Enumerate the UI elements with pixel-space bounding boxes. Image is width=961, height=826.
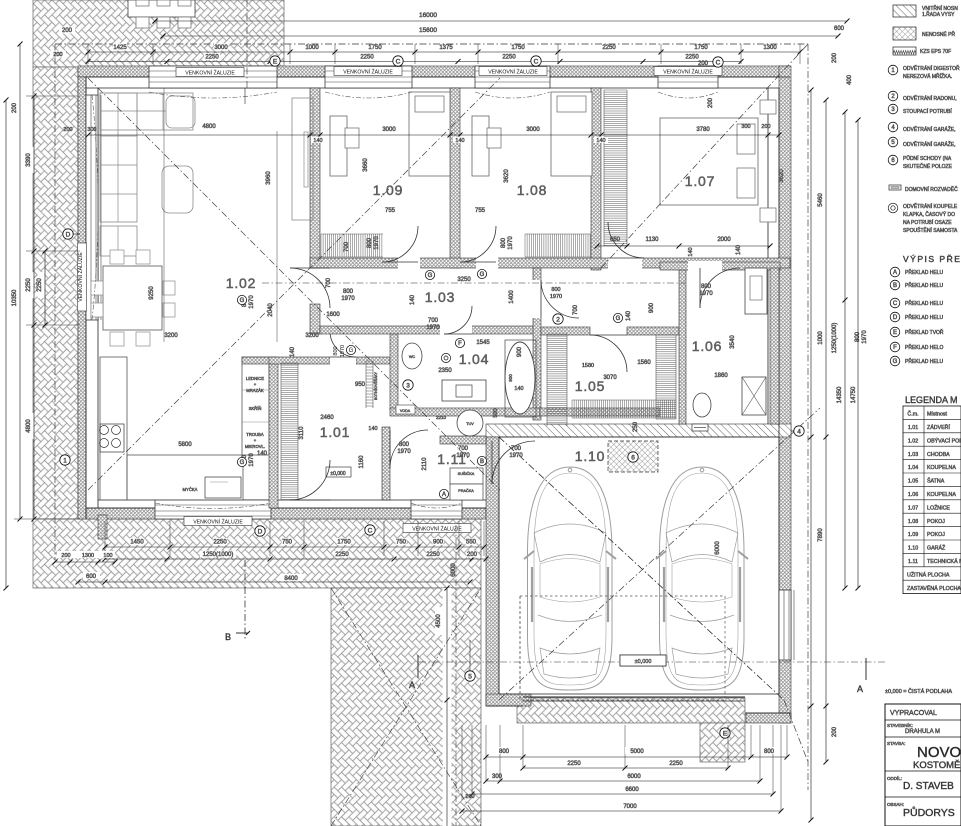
svg-text:4800: 4800 (26, 419, 32, 433)
svg-text:1970: 1970 (374, 236, 380, 250)
svg-text:1.07: 1.07 (685, 173, 715, 189)
svg-text:PŘEKLAD HELU: PŘEKLAD HELU (905, 299, 943, 307)
svg-text:PŘEKLAD HELO: PŘEKLAD HELO (905, 343, 943, 351)
svg-text:900: 900 (517, 346, 523, 357)
svg-text:KOSTOMĚ: KOSTOMĚ (913, 760, 960, 771)
svg-text:2250: 2250 (426, 552, 440, 558)
svg-text:2250: 2250 (335, 552, 349, 558)
svg-text:1.08: 1.08 (517, 182, 547, 198)
svg-text:5460: 5460 (818, 193, 824, 207)
svg-text:9250: 9250 (149, 286, 155, 300)
svg-text:1970: 1970 (341, 296, 355, 302)
svg-text:2040: 2040 (268, 303, 274, 317)
svg-text:8400: 8400 (284, 576, 298, 582)
svg-text:800: 800 (764, 749, 775, 755)
svg-text:1.06: 1.06 (908, 492, 918, 498)
svg-text:900: 900 (649, 302, 655, 313)
svg-text:LOŽNICE: LOŽNICE (927, 503, 950, 511)
svg-text:C: C (368, 527, 373, 534)
svg-text:750: 750 (282, 540, 293, 546)
svg-text:POKOJ: POKOJ (927, 519, 945, 525)
svg-text:ŠATNA: ŠATNA (927, 478, 945, 485)
svg-text:750: 750 (396, 540, 407, 546)
svg-text:200: 200 (465, 794, 474, 800)
svg-text:2110: 2110 (422, 457, 428, 471)
svg-text:1.04: 1.04 (459, 351, 489, 367)
svg-text:ODVĚTRÁNÍ GARÁŽE,: ODVĚTRÁNÍ GARÁŽE, (903, 140, 956, 148)
svg-text:1.09: 1.09 (373, 182, 403, 198)
svg-text:2250: 2250 (567, 761, 581, 767)
svg-text:140: 140 (410, 294, 416, 305)
svg-text:SPOUŠTĚNÍ SAMOSTA: SPOUŠTĚNÍ SAMOSTA (903, 226, 958, 234)
svg-text:200: 200 (467, 552, 478, 558)
svg-text:600: 600 (834, 26, 845, 32)
svg-text:GARÁŽ: GARÁŽ (927, 544, 946, 552)
svg-text:±0,000: ±0,000 (635, 659, 652, 665)
svg-text:1.01: 1.01 (320, 424, 350, 440)
svg-text:300: 300 (741, 124, 750, 130)
svg-text:G: G (616, 316, 621, 322)
svg-text:800: 800 (501, 237, 507, 248)
svg-text:1970: 1970 (550, 294, 562, 300)
svg-text:300: 300 (492, 774, 503, 780)
svg-text:D: D (258, 528, 263, 535)
svg-text:PŘEKLAD HELU: PŘEKLAD HELU (905, 281, 943, 289)
svg-text:800: 800 (333, 346, 339, 355)
svg-text:600: 600 (86, 574, 97, 580)
svg-text:A: A (857, 684, 863, 694)
svg-text:1860: 1860 (714, 373, 728, 379)
svg-text:4: 4 (797, 428, 801, 435)
svg-text:BOTNÍK/VĚŠÁKY: BOTNÍK/VĚŠÁKY (373, 371, 378, 400)
svg-text:200: 200 (832, 52, 838, 63)
svg-text:3: 3 (406, 382, 410, 389)
svg-text:16000: 16000 (419, 12, 437, 19)
svg-text:6: 6 (631, 454, 635, 461)
svg-text:1.10: 1.10 (908, 546, 918, 552)
svg-text:2000: 2000 (717, 237, 731, 243)
svg-text:C: C (534, 58, 539, 65)
svg-text:100: 100 (103, 553, 112, 559)
svg-text:6000: 6000 (451, 563, 457, 577)
svg-text:2250: 2250 (26, 278, 32, 292)
svg-text:KOUPELNA: KOUPELNA (927, 492, 956, 498)
svg-text:200: 200 (53, 52, 62, 58)
svg-text:VENKOVNÍ ŽALUZIE: VENKOVNÍ ŽALUZIE (343, 68, 393, 76)
svg-text:5: 5 (468, 673, 472, 680)
svg-text:G: G (240, 460, 245, 466)
svg-text:ZÁDVEŘÍ: ZÁDVEŘÍ (927, 423, 950, 431)
svg-text:E: E (273, 58, 278, 65)
svg-text:200: 200 (698, 61, 709, 67)
svg-text:2250: 2250 (602, 45, 616, 51)
svg-text:1.02: 1.02 (908, 438, 918, 444)
svg-text:1750: 1750 (511, 45, 525, 51)
svg-text:140: 140 (596, 138, 605, 144)
svg-text:1580: 1580 (582, 363, 594, 369)
svg-text:STAVBA:: STAVBA: (887, 741, 905, 746)
svg-text:400: 400 (847, 74, 853, 85)
svg-text:PŘEKLAD HELU: PŘEKLAD HELU (905, 357, 943, 365)
svg-text:3000: 3000 (526, 127, 540, 133)
svg-text:3780: 3780 (696, 127, 710, 133)
svg-text:140: 140 (688, 247, 694, 256)
svg-text:PŮDORYS: PŮDORYS (903, 806, 955, 819)
svg-text:TECHNICKÁ M: TECHNICKÁ M (927, 558, 961, 565)
svg-text:A: A (409, 680, 415, 690)
svg-text:6600: 6600 (625, 787, 639, 793)
svg-text:3390: 3390 (26, 153, 32, 167)
svg-text:PŮDNÍ SCHODY (NA: PŮDNÍ SCHODY (NA (903, 155, 952, 162)
svg-text:1160: 1160 (359, 455, 365, 469)
svg-text:3200: 3200 (164, 333, 178, 339)
svg-text:1750: 1750 (337, 540, 351, 546)
svg-text:G: G (428, 273, 433, 279)
svg-text:LEGENDA M: LEGENDA M (905, 395, 958, 405)
svg-text:DOMOVNÍ ROZVADĚČ: DOMOVNÍ ROZVADĚČ (905, 185, 958, 193)
svg-text:800: 800 (343, 289, 354, 295)
svg-text:14750: 14750 (851, 386, 857, 403)
svg-text:1300: 1300 (763, 45, 777, 51)
svg-text:PŘEKLAD HELU: PŘEKLAD HELU (905, 313, 943, 321)
svg-text:C: C (716, 59, 721, 66)
svg-text:4800: 4800 (202, 124, 216, 130)
svg-text:VENKOVNÍ ŽALUZIE: VENKOVNÍ ŽALUZIE (412, 525, 462, 533)
svg-text:1.06: 1.06 (692, 338, 722, 354)
svg-text:Č.m.: Č.m. (907, 411, 918, 418)
svg-text:1375: 1375 (439, 45, 453, 51)
svg-text:1.02: 1.02 (226, 275, 256, 291)
svg-text:140: 140 (290, 346, 296, 357)
svg-text:VENKOVNÍ ŽALUZIE: VENKOVNÍ ŽALUZIE (488, 68, 538, 76)
svg-text:6000: 6000 (627, 774, 641, 780)
svg-text:2250: 2250 (685, 55, 699, 61)
svg-text:5000: 5000 (630, 749, 644, 755)
svg-text:D: D (66, 231, 71, 238)
svg-text:2250: 2250 (213, 540, 227, 546)
svg-text:200: 200 (12, 102, 18, 113)
svg-text:D: D (893, 315, 898, 321)
svg-text:F: F (893, 345, 897, 351)
svg-text:SKŘÍŇ: SKŘÍŇ (249, 406, 262, 411)
svg-text:800: 800 (499, 749, 510, 755)
svg-text:1425: 1425 (113, 45, 127, 51)
svg-text:ZASTAVĚNÁ PLOCHA: ZASTAVĚNÁ PLOCHA (907, 584, 961, 592)
svg-text:1.ŘADA VYSY: 1.ŘADA VYSY (922, 10, 955, 18)
svg-text:STOUPACÍ POTRUBÍ: STOUPACÍ POTRUBÍ (903, 108, 952, 115)
svg-text:A: A (893, 270, 897, 276)
svg-text:NA POTRUBÍ OSAZE: NA POTRUBÍ OSAZE (903, 219, 952, 226)
svg-text:650: 650 (610, 237, 621, 243)
svg-text:755: 755 (385, 208, 396, 214)
svg-text:700: 700 (458, 446, 469, 452)
svg-text:VODA: VODA (400, 409, 411, 413)
svg-text:NEREZOVÁ MŘÍŽKA.: NEREZOVÁ MŘÍŽKA. (903, 72, 952, 80)
svg-text:140: 140 (368, 426, 377, 432)
svg-text:±0,000: ±0,000 (330, 471, 345, 477)
svg-text:200: 200 (708, 97, 714, 108)
svg-text:1545: 1545 (476, 340, 490, 346)
svg-text:2210: 2210 (436, 415, 447, 420)
svg-text:1970: 1970 (456, 453, 470, 459)
svg-text:3620: 3620 (779, 169, 785, 183)
svg-text:WC: WC (409, 355, 416, 359)
svg-text:KOUPELNA: KOUPELNA (927, 465, 956, 471)
svg-text:POKOJ: POKOJ (927, 532, 945, 538)
svg-text:800: 800 (399, 442, 410, 448)
svg-text:250: 250 (633, 421, 639, 432)
svg-text:VÝPIS PŘEK: VÝPIS PŘEK (903, 254, 961, 264)
svg-text:1.08: 1.08 (908, 519, 918, 525)
svg-text:2250: 2250 (205, 55, 219, 61)
svg-text:1.05: 1.05 (908, 479, 918, 485)
svg-text:1970: 1970 (397, 449, 411, 455)
svg-text:1000: 1000 (305, 45, 319, 51)
svg-text:1: 1 (63, 457, 67, 464)
svg-text:E: E (893, 330, 897, 336)
svg-text:KLAPKA, ČASOVÝ DO: KLAPKA, ČASOVÝ DO (903, 211, 955, 218)
svg-text:800: 800 (701, 284, 712, 290)
svg-text:700: 700 (511, 446, 522, 452)
svg-text:SUŠIČKA: SUŠIČKA (458, 471, 475, 476)
svg-text:2250: 2250 (669, 761, 683, 767)
svg-text:VYPRACOVAL: VYPRACOVAL (890, 710, 937, 717)
svg-text:700: 700 (573, 304, 579, 315)
svg-text:1970: 1970 (249, 295, 255, 309)
svg-text:1970: 1970 (340, 345, 346, 357)
svg-text:1.09: 1.09 (908, 532, 918, 538)
svg-text:KZS EPS 70F: KZS EPS 70F (920, 49, 951, 55)
svg-text:800: 800 (367, 237, 373, 248)
svg-text:ODVĚTRÁNÍ KOUPELE: ODVĚTRÁNÍ KOUPELE (903, 202, 958, 210)
svg-text:800: 800 (551, 287, 560, 293)
svg-text:1.01: 1.01 (908, 425, 918, 431)
svg-text:1750: 1750 (368, 45, 382, 51)
svg-text:TROUBA: TROUBA (246, 432, 264, 437)
svg-text:E: E (723, 730, 728, 737)
svg-text:PŘEKLAD TVOŘ: PŘEKLAD TVOŘ (905, 328, 944, 336)
svg-text:B: B (480, 459, 484, 465)
svg-text:1970: 1970 (699, 291, 713, 297)
svg-text:6000: 6000 (715, 541, 721, 555)
svg-text:VENKOVNÍ ŽALUZIE: VENKOVNÍ ŽALUZIE (185, 69, 235, 77)
svg-text:1750: 1750 (694, 45, 708, 51)
svg-text:200: 200 (61, 553, 70, 559)
svg-text:TUV: TUV (466, 422, 474, 426)
svg-text:SKUTEČNÉ POLOZE: SKUTEČNÉ POLOZE (903, 163, 953, 170)
svg-text:200: 200 (63, 127, 72, 133)
svg-text:VNITŘNÍ NOSN: VNITŘNÍ NOSN (922, 4, 958, 12)
svg-text:STAVEBNÍK:: STAVEBNÍK: (887, 722, 913, 728)
svg-text:Místnost: Místnost (927, 412, 948, 418)
svg-text:ODVĚTRÁNÍ GARÁŽE,: ODVĚTRÁNÍ GARÁŽE, (903, 125, 956, 133)
svg-text:3660: 3660 (363, 158, 369, 172)
svg-text:140: 140 (626, 310, 632, 321)
svg-text:G: G (893, 359, 898, 365)
svg-text:1300: 1300 (82, 553, 94, 559)
svg-text:D. STAVEB: D. STAVEB (903, 781, 954, 792)
svg-text:3110: 3110 (299, 426, 305, 440)
svg-text:NOVO: NOVO (917, 744, 961, 761)
svg-text:PŘEKLAD HELU: PŘEKLAD HELU (905, 268, 943, 276)
svg-text:1450: 1450 (130, 540, 144, 546)
svg-text:1130: 1130 (646, 237, 660, 243)
svg-text:MIKROVL.: MIKROVL. (245, 444, 265, 449)
svg-text:7000: 7000 (623, 804, 637, 810)
svg-text:1970: 1970 (862, 330, 868, 344)
svg-text:MRAZÁK: MRAZÁK (246, 388, 264, 393)
svg-text:PRAČKA: PRAČKA (458, 488, 474, 493)
svg-text:B: B (225, 632, 231, 642)
svg-text:1970: 1970 (426, 325, 440, 331)
svg-text:140: 140 (257, 451, 268, 457)
svg-text:3620: 3620 (504, 169, 510, 183)
svg-text:200: 200 (761, 124, 770, 130)
svg-text:1970: 1970 (508, 236, 514, 250)
svg-text:3540: 3540 (730, 335, 736, 349)
svg-text:500: 500 (493, 408, 499, 417)
svg-text:140: 140 (313, 138, 322, 144)
svg-text:2250: 2250 (360, 55, 374, 61)
svg-text:MYČKA: MYČKA (183, 487, 198, 492)
svg-text:G: G (349, 348, 354, 354)
svg-text:5800: 5800 (178, 442, 192, 448)
svg-text:200: 200 (832, 726, 838, 737)
svg-text:1000: 1000 (818, 331, 824, 345)
svg-text:15600: 15600 (419, 27, 437, 34)
svg-text:2460: 2460 (320, 415, 334, 421)
svg-text:3960: 3960 (266, 171, 272, 185)
svg-text:14350: 14350 (837, 386, 843, 403)
svg-text:700: 700 (344, 241, 350, 252)
svg-text:3200: 3200 (305, 333, 319, 339)
svg-text:1560: 1560 (637, 360, 651, 366)
svg-text:700: 700 (428, 318, 439, 324)
svg-text:700: 700 (326, 277, 332, 288)
svg-text:1.07: 1.07 (908, 505, 918, 511)
svg-text:3070: 3070 (603, 375, 617, 381)
svg-text:OBSAH:: OBSAH: (887, 802, 904, 807)
svg-text:1.10: 1.10 (575, 448, 605, 464)
svg-text:DRAHULA M: DRAHULA M (905, 729, 940, 735)
svg-text:2250: 2250 (37, 278, 43, 292)
svg-text:3250: 3250 (457, 277, 471, 283)
svg-text:140: 140 (514, 386, 523, 392)
svg-text:VENKOVNÍ ŽALUZIE: VENKOVNÍ ŽALUZIE (663, 68, 713, 76)
svg-text:1970: 1970 (509, 453, 523, 459)
svg-text:UŽITNÁ PLOCHA: UŽITNÁ PLOCHA (907, 570, 950, 578)
svg-text:LEDNICE: LEDNICE (246, 376, 264, 381)
svg-text:A: A (442, 492, 446, 498)
svg-text:NENOSNÉ PŘ: NENOSNÉ PŘ (922, 30, 955, 38)
svg-text:2350: 2350 (438, 368, 452, 374)
svg-text:755: 755 (475, 208, 486, 214)
svg-text:2: 2 (556, 316, 560, 323)
svg-text:1250(1000): 1250(1000) (832, 323, 838, 354)
svg-text:1.03: 1.03 (908, 452, 918, 458)
svg-text:VENKOVNÍ ŽALUZIE: VENKOVNÍ ŽALUZIE (76, 252, 84, 302)
svg-text:900: 900 (433, 540, 444, 546)
svg-text:1.03: 1.03 (425, 289, 455, 305)
svg-text:900: 900 (508, 374, 513, 382)
svg-text:1.05: 1.05 (575, 378, 605, 394)
svg-text:140: 140 (736, 244, 742, 255)
svg-text:1.11: 1.11 (908, 559, 918, 565)
svg-text:±0,000 = ČISTÁ PODLAHA: ±0,000 = ČISTÁ PODLAHA (885, 688, 952, 695)
svg-text:3000: 3000 (382, 127, 396, 133)
svg-text:C: C (396, 58, 401, 65)
svg-text:1250(1000): 1250(1000) (203, 552, 234, 558)
svg-text:1.04: 1.04 (908, 465, 918, 471)
svg-text:3000: 3000 (214, 45, 228, 51)
svg-text:2250: 2250 (502, 55, 516, 61)
svg-text:C: C (893, 301, 898, 307)
svg-text:950: 950 (355, 382, 366, 388)
svg-text:VENKOVNÍ ŽALUZIE: VENKOVNÍ ŽALUZIE (193, 518, 243, 526)
svg-text:G: G (480, 272, 485, 278)
svg-text:ODVĚTRÁNÍ RADONU,: ODVĚTRÁNÍ RADONU, (903, 94, 957, 102)
svg-text:140: 140 (455, 138, 464, 144)
svg-text:ODVĚTRÁNÍ DIGESTOŘ: ODVĚTRÁNÍ DIGESTOŘ (903, 64, 960, 72)
svg-text:1970: 1970 (249, 453, 255, 467)
svg-text:G: G (240, 298, 245, 304)
svg-text:B: B (893, 283, 897, 289)
svg-text:4500: 4500 (436, 614, 442, 628)
svg-text:7890: 7890 (818, 528, 824, 542)
svg-text:200: 200 (62, 28, 73, 34)
svg-text:1600: 1600 (326, 312, 340, 318)
svg-text:550: 550 (466, 540, 477, 546)
svg-text:ODDÍL:: ODDÍL: (887, 775, 902, 781)
svg-text:OBÝVACÍ POK: OBÝVACÍ POK (927, 437, 961, 444)
svg-text:CHODBA: CHODBA (927, 452, 950, 458)
svg-text:F: F (458, 341, 462, 347)
svg-text:10350: 10350 (12, 289, 18, 306)
svg-text:1400: 1400 (509, 290, 515, 304)
